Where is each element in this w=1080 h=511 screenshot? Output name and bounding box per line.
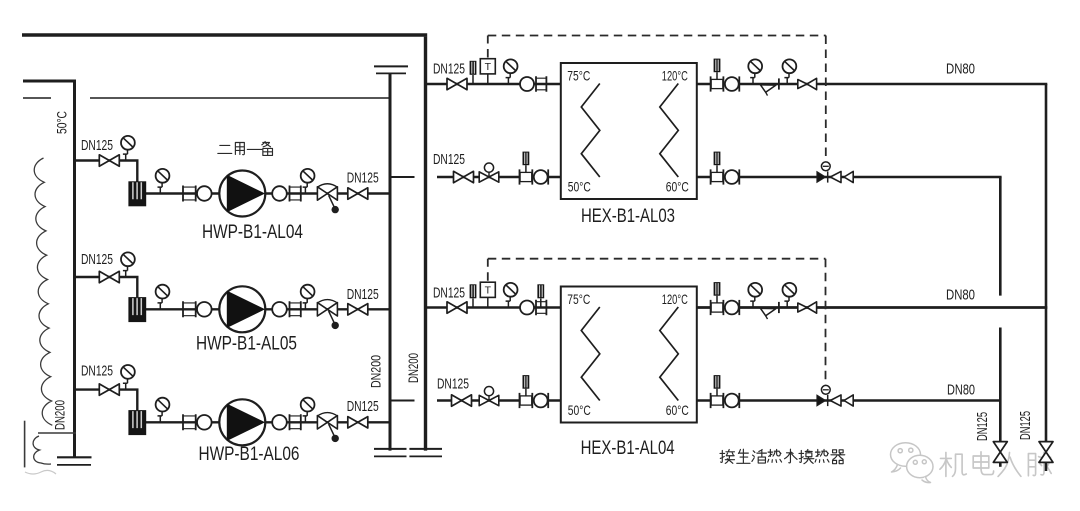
- svg-text:HWP-B1-AL04: HWP-B1-AL04: [202, 222, 303, 243]
- watermark text char2: [973, 452, 993, 475]
- safety relief valve HEX2: [761, 308, 776, 319]
- svg-text:DN125: DN125: [81, 251, 113, 268]
- annotation: two duty one standby char4: [262, 141, 273, 155]
- watermark wechat small bubble: [907, 455, 933, 482]
- crop mark vertical line bottom left: [24, 421, 26, 468]
- temperature well HEX2 supply: [470, 284, 477, 307]
- wire: DN80 drop pipe C lower segment: [999, 328, 1002, 442]
- svg-text:DN125: DN125: [433, 151, 465, 168]
- wire: HEX1 120C primary line to DN80: [696, 83, 1047, 86]
- wire: pump2 discharge line: [146, 308, 389, 310]
- annotation char4: [768, 449, 782, 462]
- watermark text char4: [1028, 452, 1051, 475]
- flexible joint pump1 outlet: [272, 186, 301, 202]
- crop mark horizontal line to suction pipe: [38, 432, 76, 434]
- valve V8 HEX1 50C line: [454, 171, 474, 182]
- control signal: HEX1 drop to motor valve: [825, 36, 827, 162]
- svg-text:DN80: DN80: [946, 287, 975, 304]
- cap: pipe B bottom: [409, 448, 442, 450]
- svg-text:DN125: DN125: [433, 285, 465, 302]
- motorized control valve HEX1 60C: [817, 162, 853, 183]
- watermark text char1: [940, 452, 966, 476]
- valve V3 pump2 suction: [99, 271, 119, 282]
- well and flexible joint HEX2 60C: [711, 375, 740, 408]
- gauge PI pump2 inlet: [156, 285, 170, 310]
- balancing valve HEX1 50C line: [479, 163, 499, 182]
- svg-text:DN200: DN200: [369, 355, 384, 388]
- gauge PI pump3 outlet: [301, 398, 315, 423]
- gauge PI pump1 inlet: [156, 169, 170, 194]
- watermark text char3: [998, 452, 1021, 476]
- revision cloud left edge: [34, 158, 52, 425]
- svg-text:HWP-B1-AL05: HWP-B1-AL05: [196, 334, 297, 355]
- svg-text:DN80: DN80: [947, 382, 975, 399]
- annotation char6: [799, 449, 814, 463]
- svg-text:DN125: DN125: [81, 363, 113, 380]
- control signal: HEX1 T sensor riser: [487, 36, 489, 58]
- gauge PI HEX2 supply: [504, 283, 518, 308]
- flexible joint HEX1 75C inlet: [520, 76, 546, 91]
- svg-text:DN80: DN80: [946, 61, 975, 78]
- wire: thin return line right segment to pipe A: [90, 97, 389, 99]
- svg-text:DN125: DN125: [1017, 411, 1034, 440]
- gauge PI HEX1 120C b: [783, 59, 797, 84]
- wire: DN80 drop pipe D: [1045, 84, 1048, 442]
- heat exchanger HEX-B1-AL03: [561, 63, 697, 199]
- svg-text:DN200: DN200: [53, 400, 68, 430]
- check valve HEX2 120C: [798, 302, 817, 313]
- filter F3 pump3: [128, 410, 146, 435]
- valve V4 pump2 discharge: [348, 304, 368, 315]
- annotation: to domestic hot water HEX char1: [720, 449, 735, 463]
- valve V9 HEX2 75C inlet: [447, 302, 467, 313]
- valve V10 HEX2 50C line: [452, 395, 472, 406]
- filter F1 pump1: [128, 181, 146, 206]
- pipe tick HEX1 120C: [778, 78, 780, 89]
- gauge PI pump2 outlet: [301, 285, 315, 310]
- flexible joint pump2 outlet: [272, 301, 301, 317]
- gauge PI pump3 suction: [121, 365, 135, 390]
- annotation char7: [815, 449, 829, 462]
- wire: thin return line left segment: [23, 97, 51, 99]
- control signal: HEX2 T sensor riser: [487, 259, 489, 281]
- valve V7 HEX1 75C inlet: [447, 78, 467, 89]
- wire: top supply header 75C: [22, 33, 427, 37]
- temperature well on HEX2 inlet joint: [537, 284, 544, 307]
- shutoff valve pipe D bottom: [1039, 442, 1053, 463]
- safety relief valve HEX1: [761, 85, 776, 96]
- wire: HEX2 75C supply from pipe B: [427, 306, 561, 309]
- wire: HEX2 50C return stub from pipe A: [392, 400, 415, 402]
- wire: DN80 drop pipe C upper segment: [999, 177, 1002, 296]
- flexible joint pump3 outlet: [272, 414, 301, 430]
- flexible joint HEX2 75C inlet: [520, 300, 546, 315]
- well and flexible joint HEX1 120C: [711, 59, 740, 92]
- svg-text:DN200: DN200: [406, 353, 421, 383]
- cap: pipe A bottom: [374, 448, 407, 450]
- pump HWP-B1-AL05: [219, 286, 265, 332]
- wire: HEX2 120C primary line to DN80: [696, 306, 1047, 309]
- watermark wechat big bubble: [891, 443, 921, 472]
- flexible joint pump2 inlet: [183, 301, 212, 317]
- filter F2 pump2: [128, 297, 146, 322]
- annotation: two duty one standby char1: [218, 145, 232, 153]
- wire: HEX1 50C return stub from pipe A: [392, 176, 415, 178]
- heat exchanger HEX-B1-AL04: [561, 287, 697, 423]
- wire: HEX2 50C return line: [437, 399, 561, 401]
- annotation char5: [785, 449, 798, 463]
- wire: return line into suction pipe: [23, 80, 76, 83]
- shutoff valve pipe C bottom: [993, 442, 1007, 463]
- gauge PI pump1 suction: [121, 136, 135, 161]
- control signal: HEX1 horizontal run: [488, 35, 826, 37]
- faint residue squiggle: [25, 470, 56, 474]
- well and flexible joint HEX1 60C: [711, 152, 740, 185]
- valve V6 pump3 discharge: [348, 417, 368, 428]
- wire: pump3 suction branch: [76, 390, 137, 411]
- wire: HEX2 60C primary return to DN80: [696, 399, 1000, 401]
- pump HWP-B1-AL04: [219, 171, 265, 217]
- pipe tick HEX2 120C: [778, 302, 780, 313]
- valve V2 pump1 discharge: [348, 188, 368, 199]
- wire: pump1 suction branch: [76, 161, 137, 182]
- flexible joint pump1 inlet: [183, 186, 212, 202]
- control signal: HEX2 horizontal run: [488, 258, 826, 260]
- annotation char3: [752, 449, 767, 463]
- gauge PI pump1 outlet: [301, 169, 315, 194]
- temperature sensor T1: [480, 59, 495, 84]
- well and flexible joint HEX2 50C: [520, 375, 549, 408]
- svg-text:HWP-B1-AL06: HWP-B1-AL06: [199, 444, 300, 465]
- svg-text:DN125: DN125: [974, 412, 991, 441]
- control signal: HEX2 drop to motor valve: [825, 259, 827, 386]
- gauge PI pump2 suction: [121, 252, 135, 277]
- check valve pump3: [317, 413, 339, 443]
- wire: discharge header pipe A DN200: [389, 74, 392, 451]
- wire: supply header pipe B DN200: [424, 37, 427, 451]
- cap: pipe A top: [374, 65, 408, 67]
- wire: pump1 discharge line: [146, 192, 389, 194]
- annotation: two duty one standby char2: [235, 142, 244, 154]
- motorized control valve HEX2 60C: [817, 385, 853, 406]
- svg-text:DN125: DN125: [433, 61, 465, 78]
- annotation: two duty one standby char3: [247, 146, 262, 153]
- temperature well HEX1 supply: [470, 61, 477, 84]
- ground: suction pipe bottom: [57, 456, 92, 458]
- svg-text:50°C: 50°C: [55, 111, 70, 134]
- svg-text:DN125: DN125: [81, 137, 113, 154]
- wire: pump3 discharge line: [146, 421, 389, 423]
- wire: HEX1 60C primary return to DN80: [696, 176, 1001, 178]
- svg-text:DN125: DN125: [347, 398, 379, 415]
- annotation char8: [831, 450, 845, 464]
- valve V5 pump3 suction: [99, 384, 119, 395]
- check valve pump1: [317, 184, 339, 214]
- annotation char2: [737, 449, 750, 463]
- valve V1 pump1 suction: [99, 155, 119, 166]
- wire: pipe D stub below valve: [1045, 462, 1048, 471]
- wire: pump2 suction branch: [76, 277, 137, 297]
- svg-text:DN125: DN125: [347, 286, 379, 303]
- revision cloud lower arcs and hook: [33, 436, 51, 464]
- svg-text:DN125: DN125: [347, 170, 379, 187]
- gauge PI HEX1 supply: [504, 59, 518, 84]
- check valve HEX1 120C: [798, 78, 817, 89]
- gauge PI pump3 inlet: [156, 398, 170, 423]
- wire: HEX1 75C supply from pipe B: [427, 83, 561, 86]
- well and flexible joint HEX1 50C: [520, 152, 549, 185]
- wire: suction header pipe DN200 vertical: [73, 80, 76, 457]
- wire: pipe C stub below valve: [999, 462, 1002, 467]
- pump HWP-B1-AL06: [219, 399, 265, 445]
- temperature sensor T2: [480, 282, 495, 307]
- flexible joint pump3 inlet: [183, 414, 212, 430]
- check valve pump2: [317, 300, 339, 330]
- gauge PI HEX2 120C a: [748, 283, 762, 308]
- well and flexible joint HEX2 120C: [711, 282, 740, 315]
- svg-text:HEX-B1-AL04: HEX-B1-AL04: [581, 438, 675, 459]
- gauge PI HEX1 120C a: [748, 59, 762, 84]
- wire: HEX1 50C return line: [437, 176, 561, 178]
- gauge PI HEX2 120C b: [783, 283, 797, 308]
- svg-text:HEX-B1-AL03: HEX-B1-AL03: [581, 206, 675, 227]
- svg-text:DN125: DN125: [437, 376, 469, 393]
- balancing valve HEX2 50C line: [479, 387, 499, 406]
